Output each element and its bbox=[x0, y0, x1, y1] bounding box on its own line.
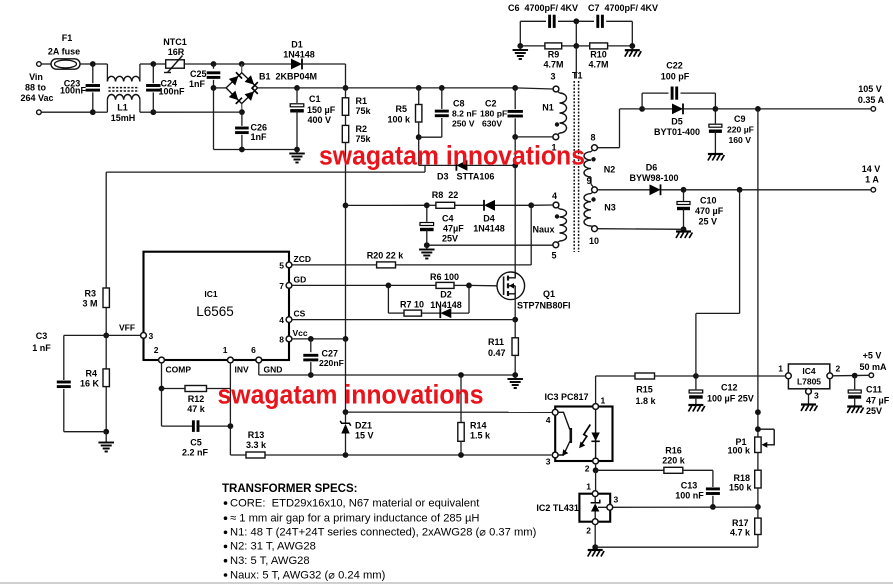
wire source to CS bbox=[514, 300, 516, 320]
resistor R16 220k bbox=[596, 469, 664, 471]
svg-text:C2: C2 bbox=[485, 99, 497, 109]
op-amp IC1 L6565 box bbox=[144, 252, 290, 360]
capacitor C22 100pF bbox=[641, 93, 643, 109]
diode D4 1N4148 (pointing left) bbox=[484, 200, 495, 211]
svg-text:C10: C10 bbox=[700, 196, 717, 206]
svg-text:1 nF: 1 nF bbox=[32, 343, 51, 353]
svg-text:100 µF 25V: 100 µF 25V bbox=[707, 394, 754, 404]
terminal +5V bbox=[869, 373, 874, 378]
svg-text:1: 1 bbox=[778, 364, 783, 374]
svg-text:1N4148: 1N4148 bbox=[430, 300, 462, 310]
svg-text:2: 2 bbox=[154, 345, 159, 355]
resistor R6 100 bbox=[388, 284, 436, 286]
resistor R4 16K bbox=[105, 335, 107, 369]
svg-text:C5: C5 bbox=[190, 438, 202, 448]
secondary N3 coil bbox=[591, 192, 593, 194]
node R8 line start bbox=[346, 204, 427, 206]
svg-text:C4: C4 bbox=[442, 214, 454, 224]
svg-text:8: 8 bbox=[279, 334, 284, 344]
secondary pin 9 bbox=[592, 187, 598, 193]
wire bottom to C24 bbox=[140, 111, 153, 113]
node C25 top bbox=[211, 61, 217, 67]
svg-text:R13: R13 bbox=[248, 430, 265, 440]
svg-text:N3: N3 bbox=[604, 203, 616, 213]
bridge diode top-right bbox=[245, 75, 255, 84]
pin 2 COMP bbox=[159, 357, 165, 363]
svg-text:R16: R16 bbox=[665, 446, 682, 456]
resistor R7 10 bbox=[387, 285, 389, 313]
svg-text:R17: R17 bbox=[732, 518, 749, 528]
shunt regulator IC2 TL431 box bbox=[579, 494, 610, 522]
svg-text:Vin: Vin bbox=[29, 72, 43, 82]
svg-text:C8: C8 bbox=[453, 99, 465, 109]
node bridge AC left bbox=[211, 85, 217, 91]
node N1 pin1 / drain bbox=[512, 134, 518, 140]
ground below C12 (chassis) bbox=[688, 404, 703, 406]
resistor R18 150k bbox=[757, 453, 759, 471]
svg-text:R2: R2 bbox=[356, 124, 368, 134]
capacitor C9 220uF 160V bbox=[714, 109, 716, 124]
svg-text:75k: 75k bbox=[356, 106, 372, 116]
resistor R2 75k bbox=[345, 115, 347, 125]
svg-text:R18: R18 bbox=[733, 473, 750, 483]
capacitor C1 150uF 400V bbox=[296, 88, 298, 103]
svg-text:N2: N2 bbox=[604, 165, 616, 175]
svg-text:100nF: 100nF bbox=[159, 87, 186, 97]
svg-text:3: 3 bbox=[149, 331, 154, 341]
resistor R1 75k bbox=[345, 88, 347, 98]
svg-text:R3: R3 bbox=[84, 289, 96, 299]
svg-text:R4: R4 bbox=[85, 369, 97, 379]
resistor R20 22k bbox=[377, 262, 396, 268]
svg-text:+5 V: +5 V bbox=[863, 351, 882, 361]
svg-text:C9: C9 bbox=[734, 114, 746, 124]
resistor R5 100k bbox=[418, 88, 420, 105]
node top AC junction at C23 bbox=[90, 61, 96, 67]
TL431 internal symbol bbox=[591, 503, 599, 511]
node R4-C3 ground bbox=[105, 387, 107, 432]
wire R5/C8 node down to D3 line bbox=[418, 137, 420, 165]
ground below IC4 (chassis) bbox=[801, 403, 816, 405]
svg-text:D5: D5 bbox=[671, 117, 683, 127]
ground below C7 right (chassis) bbox=[631, 46, 633, 50]
PC817 phototransistor bbox=[558, 412, 570, 429]
capacitor C10 470uF 25V bbox=[683, 190, 685, 201]
svg-text:50 mA: 50 mA bbox=[859, 362, 887, 372]
svg-text:47 k: 47 k bbox=[187, 404, 206, 414]
svg-text:T1: T1 bbox=[572, 71, 583, 81]
svg-text:47µF: 47µF bbox=[443, 224, 464, 234]
wire Naux pin4 node down to ZCD/R20 bbox=[530, 205, 532, 265]
wire 14V feed down to R15 node bbox=[739, 190, 741, 314]
wire PC817 pin1 up to R15 bbox=[595, 376, 597, 404]
capacitor C7 bbox=[576, 20, 594, 22]
terminal 14V bbox=[871, 188, 876, 193]
svg-text:R7 10: R7 10 bbox=[400, 300, 424, 310]
svg-text:9: 9 bbox=[586, 176, 591, 186]
node bridge bottom AC bbox=[241, 104, 243, 113]
svg-text:N1: 48 T (24T+24T series conne: N1: 48 T (24T+24T series connected), 2xA… bbox=[230, 527, 537, 539]
svg-text:C27: C27 bbox=[322, 349, 339, 359]
transformer T1 core bbox=[573, 81, 575, 252]
wire R3 to VFF node bbox=[105, 308, 107, 336]
resistor R8 22 bbox=[427, 204, 436, 206]
svg-text:D2: D2 bbox=[440, 290, 452, 300]
DC bus wire bbox=[297, 87, 515, 89]
svg-text:4.7M: 4.7M bbox=[588, 60, 608, 70]
svg-text:100 pF: 100 pF bbox=[661, 72, 690, 82]
svg-text:N3: 5 T, AWG28: N3: 5 T, AWG28 bbox=[230, 555, 310, 567]
ground below C10 (chassis) bbox=[683, 229, 685, 231]
svg-text:7: 7 bbox=[279, 281, 284, 291]
capacitor C6 bbox=[520, 20, 546, 22]
svg-text:160 V: 160 V bbox=[729, 135, 752, 145]
svg-text:0.35 A: 0.35 A bbox=[858, 95, 885, 105]
pin 7 GD bbox=[286, 283, 292, 289]
resistor R11 0.47 bbox=[514, 320, 516, 338]
svg-text:F1: F1 bbox=[62, 33, 73, 43]
wire 14V to terminal bbox=[684, 189, 872, 191]
svg-text:D4: D4 bbox=[483, 214, 495, 224]
svg-text:47 µF: 47 µF bbox=[866, 396, 890, 406]
wire TL431 ref line bbox=[613, 506, 758, 508]
inductor L1 common-mode choke bbox=[106, 64, 108, 82]
wire VFF feed line bbox=[424, 165, 426, 172]
svg-text:DZ1: DZ1 bbox=[355, 421, 372, 431]
svg-text:C7 4700pF/ 4KV: C7 4700pF/ 4KV bbox=[588, 3, 658, 13]
resistor R3 3M bbox=[103, 288, 109, 308]
svg-text:3 M: 3 M bbox=[82, 299, 97, 309]
svg-text:3: 3 bbox=[814, 391, 819, 401]
svg-text:GND: GND bbox=[264, 365, 283, 375]
svg-text:D3: D3 bbox=[437, 172, 449, 182]
wire 105V sense down to P1 bbox=[757, 109, 759, 437]
svg-text:C22: C22 bbox=[666, 61, 683, 71]
capacitor C24 bbox=[152, 64, 154, 83]
svg-text:100 k: 100 k bbox=[727, 446, 751, 456]
wire Naux pin5 to C4 ground node bbox=[427, 244, 553, 246]
TL431 pin 3 bbox=[607, 504, 613, 510]
thermistor NTC1 bbox=[153, 63, 165, 65]
capacitor C25 bbox=[213, 64, 215, 69]
svg-text:16 K: 16 K bbox=[80, 379, 100, 389]
svg-text:8.2 nF: 8.2 nF bbox=[452, 109, 477, 119]
bottom border line bbox=[0, 582, 893, 584]
svg-text:D6: D6 bbox=[646, 163, 658, 173]
svg-text:IC4: IC4 bbox=[802, 366, 816, 376]
svg-text:R5: R5 bbox=[395, 104, 407, 114]
PC817 pin 3 bbox=[552, 452, 558, 458]
capacitor C2 180pF 630V bbox=[514, 88, 516, 109]
Naux phase dot bbox=[555, 214, 559, 218]
svg-text:CORE: ETD29x16x10, N67 materi: CORE: ETD29x16x10, N67 material or equiv… bbox=[230, 497, 480, 509]
primary N1 pin 1 bbox=[553, 134, 559, 140]
svg-text:220 µF: 220 µF bbox=[727, 125, 754, 135]
svg-text:NTC1: NTC1 bbox=[163, 37, 187, 47]
secondary N2 coil bbox=[591, 150, 593, 152]
svg-text:15 V: 15 V bbox=[355, 431, 374, 441]
svg-text:CS: CS bbox=[294, 309, 306, 319]
svg-text:2.2 nF: 2.2 nF bbox=[182, 448, 209, 458]
bridge diode bottom-right bbox=[245, 91, 255, 100]
wire C6 left leg bbox=[519, 21, 521, 46]
node bottom AC junction at C23 bbox=[90, 109, 96, 115]
diode D5 BYT01-400 bbox=[642, 108, 672, 110]
PC817 pin 4 bbox=[552, 409, 558, 415]
terminal 105V bbox=[871, 107, 876, 112]
svg-text:2A fuse: 2A fuse bbox=[48, 47, 80, 57]
PC817 LED bbox=[595, 409, 597, 458]
svg-text:L7805: L7805 bbox=[797, 377, 821, 387]
svg-text:INV: INV bbox=[235, 365, 250, 375]
IC4 pin 2 bbox=[827, 373, 833, 379]
svg-text:100nF: 100nF bbox=[60, 86, 87, 96]
svg-text:R1: R1 bbox=[356, 96, 368, 106]
node R5-C8 bottom bbox=[418, 122, 420, 137]
wire bridge + output bbox=[258, 87, 297, 89]
svg-text:C12: C12 bbox=[721, 383, 738, 393]
svg-text:R12: R12 bbox=[188, 394, 205, 404]
capacitor C11 47uF 25V bbox=[854, 376, 856, 390]
L1 core dashes bbox=[109, 87, 140, 89]
svg-text:N1: N1 bbox=[542, 103, 554, 113]
svg-text:R11: R11 bbox=[488, 337, 504, 347]
svg-text:220 k: 220 k bbox=[662, 456, 686, 466]
wire pin8 up to 105V rail bbox=[597, 147, 619, 149]
svg-text:R15: R15 bbox=[636, 385, 653, 395]
secondary N2 pin 8 bbox=[592, 145, 598, 151]
capacitor C27 220nF bbox=[310, 339, 312, 352]
svg-text:1: 1 bbox=[223, 345, 228, 355]
resistor R14 1.5k bbox=[458, 372, 464, 378]
svg-text:BYW98-100: BYW98-100 bbox=[629, 173, 678, 183]
wire C25 leg to ground rail bbox=[213, 88, 215, 150]
svg-text:1N4148: 1N4148 bbox=[283, 50, 315, 60]
svg-text:2: 2 bbox=[836, 364, 841, 374]
ground below R4 (earth) bbox=[105, 432, 107, 442]
svg-text:3.3 k: 3.3 k bbox=[246, 440, 267, 450]
wire 105V to terminal bbox=[715, 108, 871, 110]
wire VFF to pin3 bbox=[64, 334, 141, 336]
bridge rectifier B1 2KBP04M bbox=[226, 73, 258, 104]
IC4 pin 1 bbox=[786, 373, 792, 379]
pin 6 GND bbox=[256, 357, 262, 363]
PC817 light arrow bbox=[580, 425, 590, 447]
svg-text:Naux: 5 T, AWG32 (⌀ 0.24 mm): Naux: 5 T, AWG32 (⌀ 0.24 mm) bbox=[230, 569, 386, 581]
capacitor C4 47uF 25V bbox=[426, 205, 428, 222]
N3 phase dot bbox=[591, 197, 595, 201]
wire INV down bbox=[229, 363, 231, 455]
svg-text:C25: C25 bbox=[190, 69, 207, 79]
wire TL431 anode to ground bbox=[594, 525, 596, 548]
svg-text:100 k: 100 k bbox=[387, 115, 411, 125]
svg-text:R8 22: R8 22 bbox=[432, 190, 459, 200]
ground below C9 (chassis) bbox=[708, 153, 723, 155]
IC4 pin 3 bbox=[808, 389, 810, 404]
svg-text:C26: C26 bbox=[251, 123, 268, 133]
aux winding pin 4 bbox=[553, 202, 559, 208]
svg-text:≈ 1 mm air gap for a primary i: ≈ 1 mm air gap for a primary inductance … bbox=[230, 513, 480, 525]
svg-text:5: 5 bbox=[279, 260, 284, 270]
svg-text:3: 3 bbox=[546, 457, 551, 467]
svg-text:2: 2 bbox=[586, 526, 591, 536]
svg-text:100 nF: 100 nF bbox=[675, 491, 704, 501]
svg-text:180 pF: 180 pF bbox=[480, 109, 507, 119]
TL431 pin 2 bbox=[592, 519, 598, 525]
svg-text:4: 4 bbox=[552, 191, 557, 201]
svg-text:25V: 25V bbox=[866, 406, 882, 416]
pin 1 INV bbox=[228, 357, 234, 363]
capacitor C23 bbox=[92, 64, 94, 83]
ground below C11 (chassis) bbox=[847, 405, 862, 407]
svg-text:25V: 25V bbox=[442, 234, 458, 244]
diode D6 BYW98-100 bbox=[597, 189, 649, 191]
svg-text:B1 2KBP04M: B1 2KBP04M bbox=[259, 72, 317, 82]
svg-text:8: 8 bbox=[590, 133, 595, 143]
svg-text:4.7 k: 4.7 k bbox=[730, 528, 751, 538]
wire D1 to DC bus bbox=[345, 64, 347, 88]
wire DZ1 node to optocoupler pin4 bbox=[346, 411, 552, 413]
svg-text:14 V: 14 V bbox=[862, 164, 881, 174]
svg-text:TRANSFORMER SPECS:: TRANSFORMER SPECS: bbox=[222, 483, 357, 495]
resistor R9 4.7M bbox=[520, 45, 545, 47]
diode D1 1N4148 bbox=[242, 63, 291, 65]
N2 phase dot bbox=[591, 157, 595, 161]
diode D2 1N4148 (pointing left) bbox=[440, 308, 451, 318]
svg-text:105 V: 105 V bbox=[858, 84, 882, 94]
fuse F1 bbox=[51, 59, 80, 69]
capacitor C12 100uF 25V bbox=[695, 376, 697, 389]
capacitor C26 bbox=[241, 112, 243, 126]
ground below C6 left (earth) bbox=[519, 46, 521, 50]
svg-text:88 to: 88 to bbox=[25, 83, 47, 93]
svg-text:VFF: VFF bbox=[119, 323, 135, 333]
pin 3 VFF bbox=[141, 333, 147, 339]
svg-text:C11: C11 bbox=[866, 385, 882, 395]
svg-text:220nF: 220nF bbox=[319, 358, 344, 368]
wire secondary ground rail to R17 bbox=[595, 546, 758, 548]
svg-text:C13: C13 bbox=[681, 481, 698, 491]
node mid R9-R10 bbox=[573, 43, 579, 49]
svg-text:3: 3 bbox=[614, 495, 619, 505]
wire C7 right leg bbox=[631, 21, 633, 46]
svg-text:GD: GD bbox=[294, 275, 307, 285]
svg-text:C3: C3 bbox=[36, 331, 48, 341]
pin 4 CS bbox=[286, 317, 292, 323]
svg-text:2: 2 bbox=[585, 464, 590, 474]
potentiometer P1 100k bbox=[755, 437, 761, 453]
svg-text:ZCD: ZCD bbox=[294, 254, 311, 264]
svg-text:16R: 16R bbox=[168, 47, 185, 57]
svg-text:COMP: COMP bbox=[166, 365, 192, 375]
svg-text:630V: 630V bbox=[482, 119, 502, 129]
svg-text:3: 3 bbox=[550, 72, 555, 82]
svg-text:L6565: L6565 bbox=[196, 304, 234, 319]
primary N1 coil bbox=[558, 91, 560, 93]
secondary pin 10 bbox=[592, 226, 598, 232]
svg-text:5: 5 bbox=[551, 251, 556, 261]
N1 phase dot bbox=[555, 122, 559, 126]
optocoupler IC3 PC817 box bbox=[555, 407, 612, 462]
capacitor C8 8.2nF 250V bbox=[441, 88, 443, 109]
svg-text:IC3 PC817: IC3 PC817 bbox=[545, 392, 589, 402]
svg-text:4: 4 bbox=[279, 315, 284, 325]
resistor R10 4.7M bbox=[576, 45, 589, 47]
resistor R17 4.7k bbox=[757, 507, 759, 518]
svg-text:C6 4700pF/ 4KV: C6 4700pF/ 4KV bbox=[508, 3, 578, 13]
svg-text:STP7NB80FI: STP7NB80FI bbox=[517, 301, 571, 311]
svg-text:IC1: IC1 bbox=[204, 289, 218, 299]
svg-text:Q1: Q1 bbox=[543, 289, 555, 299]
terminal Vin line (top) bbox=[37, 62, 42, 67]
pin 8 Vcc bbox=[286, 336, 292, 342]
svg-text:BYT01-400: BYT01-400 bbox=[654, 127, 700, 137]
zener DZ1 15V bbox=[345, 339, 347, 412]
svg-text:150 µF: 150 µF bbox=[307, 105, 336, 115]
ground below R11 (earth) bbox=[514, 375, 516, 379]
svg-text:N2: 31 T, AWG28: N2: 31 T, AWG28 bbox=[230, 541, 316, 553]
svg-text:R14: R14 bbox=[470, 421, 487, 431]
PC817 pin 1 bbox=[593, 404, 599, 410]
resistor R13 3.3k bbox=[246, 452, 265, 458]
capacitor C13 100nF bbox=[712, 470, 714, 487]
svg-text:0.47: 0.47 bbox=[488, 348, 506, 358]
svg-text:R6 100: R6 100 bbox=[430, 272, 459, 282]
wire COMP down bbox=[161, 363, 163, 389]
aux Naux coil bbox=[558, 207, 560, 209]
svg-text:STTA106: STTA106 bbox=[457, 172, 495, 182]
aux pin 5 bbox=[553, 242, 559, 248]
wire IC4 out to +5V terminal bbox=[833, 374, 869, 377]
transistor Q1 STP7NB80FI bbox=[497, 272, 525, 300]
svg-text:10: 10 bbox=[589, 236, 599, 246]
svg-text:swagatam innovations: swagatam innovations bbox=[319, 141, 585, 171]
svg-text:1N4148: 1N4148 bbox=[473, 224, 505, 234]
svg-text:1nF: 1nF bbox=[189, 79, 206, 89]
resistor R15 1.8k bbox=[635, 373, 655, 379]
svg-text:470 µF: 470 µF bbox=[695, 206, 724, 216]
wire pin10 to C10 ground bbox=[597, 228, 683, 231]
svg-text:1 A: 1 A bbox=[865, 175, 879, 185]
svg-text:6: 6 bbox=[251, 345, 256, 355]
svg-text:400 V: 400 V bbox=[308, 115, 332, 125]
svg-text:D1: D1 bbox=[291, 40, 303, 50]
PC817 pin 2 bbox=[593, 458, 599, 464]
svg-text:25 V: 25 V bbox=[699, 217, 718, 227]
svg-text:Vcc: Vcc bbox=[293, 328, 308, 338]
ground below C4 (earth) bbox=[426, 245, 428, 249]
svg-text:264 Vac: 264 Vac bbox=[20, 93, 53, 103]
svg-text:150 k: 150 k bbox=[729, 483, 753, 493]
wire R2 down to R8 node and Vcc node bbox=[345, 143, 347, 206]
svg-text:1.8 k: 1.8 k bbox=[635, 396, 656, 406]
svg-text:IC2 TL431: IC2 TL431 bbox=[536, 503, 579, 513]
node top AC at bridge bbox=[239, 61, 245, 67]
wire PC817 pin2 down bbox=[595, 464, 597, 470]
bridge diode bottom-left bbox=[229, 91, 238, 100]
capacitor C3 1nF bbox=[63, 335, 65, 380]
wire GND pin down and IC ground rail bbox=[258, 363, 260, 375]
svg-text:1.5 k: 1.5 k bbox=[470, 431, 491, 441]
wire top to C24 bbox=[140, 63, 153, 65]
diode D3 STTA106 (pointing left) bbox=[456, 160, 467, 171]
svg-text:C1: C1 bbox=[309, 94, 321, 104]
terminal Vin line (bottom) bbox=[37, 110, 42, 115]
primary N1 winding pin 3 bbox=[553, 86, 559, 92]
resistor R12 47k bbox=[162, 388, 186, 390]
svg-text:15mH: 15mH bbox=[111, 113, 136, 123]
regulator IC4 L7805 bbox=[788, 364, 829, 389]
